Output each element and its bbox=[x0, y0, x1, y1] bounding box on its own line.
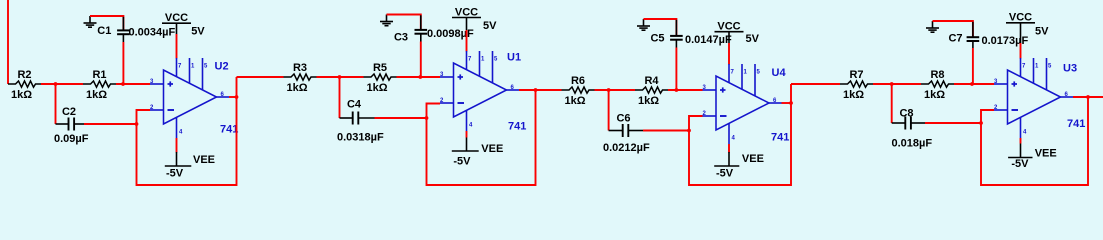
wire bbox=[466, 131, 468, 138]
wire C2 branch bbox=[55, 84, 57, 124]
capacitor C2 bbox=[54, 106, 89, 145]
wire feedback bbox=[689, 84, 791, 185]
junction bbox=[1086, 95, 1090, 99]
svg-text:C5: C5 bbox=[650, 33, 664, 45]
junction node A3 bbox=[607, 88, 611, 92]
svg-text:R6: R6 bbox=[571, 75, 585, 87]
wire bbox=[122, 34, 124, 42]
svg-text:0.0318µF: 0.0318µF bbox=[337, 132, 384, 144]
junction node A1 bbox=[54, 82, 58, 86]
wire bbox=[420, 15, 422, 30]
svg-text:741: 741 bbox=[508, 121, 526, 133]
wire bbox=[728, 144, 730, 153]
svg-text:1kΩ: 1kΩ bbox=[86, 89, 107, 101]
resistor R7 bbox=[840, 69, 873, 101]
svg-text:C8: C8 bbox=[899, 108, 913, 120]
op-amp U3 bbox=[994, 58, 1085, 138]
wire bbox=[340, 117, 353, 119]
ground bbox=[84, 16, 97, 27]
resistor R4 bbox=[635, 75, 668, 107]
svg-text:VCC: VCC bbox=[165, 12, 188, 24]
wire C8 branch bbox=[891, 84, 893, 123]
wire bbox=[387, 15, 421, 30]
wire bbox=[972, 41, 974, 48]
svg-text:C2: C2 bbox=[62, 106, 76, 118]
resistor R5 bbox=[364, 62, 397, 94]
svg-text:-5V: -5V bbox=[716, 168, 734, 180]
svg-text:0.018µF: 0.018µF bbox=[892, 138, 933, 150]
wire bbox=[643, 130, 689, 132]
wire bbox=[420, 42, 422, 78]
wire to stage 2 bbox=[237, 76, 284, 78]
junction bbox=[534, 88, 538, 92]
svg-text:741: 741 bbox=[771, 132, 789, 144]
wire bbox=[873, 83, 921, 85]
svg-text:VCC: VCC bbox=[1009, 12, 1032, 24]
wire C6 branch bbox=[608, 90, 610, 131]
wire bbox=[116, 83, 150, 85]
wire output bbox=[782, 102, 792, 104]
wire feedback bbox=[427, 90, 536, 185]
junction node B3 bbox=[675, 88, 679, 92]
ground bbox=[380, 15, 393, 26]
svg-text:1kΩ: 1kΩ bbox=[924, 89, 945, 101]
op-amp U4 bbox=[703, 64, 790, 144]
svg-text:-5V: -5V bbox=[166, 168, 184, 180]
wire bbox=[466, 30, 468, 52]
svg-text:1kΩ: 1kΩ bbox=[286, 82, 307, 94]
svg-text:1kΩ: 1kΩ bbox=[11, 89, 32, 101]
svg-text:U1: U1 bbox=[507, 52, 521, 64]
junction node A2 bbox=[338, 75, 342, 79]
junction node B4 bbox=[970, 82, 974, 86]
svg-text:0.09µF: 0.09µF bbox=[54, 133, 89, 145]
resistor R6 bbox=[562, 75, 595, 107]
capacitor C8 bbox=[892, 108, 933, 150]
wire bbox=[644, 19, 677, 36]
junction bbox=[425, 116, 429, 120]
svg-text:R8: R8 bbox=[930, 69, 944, 81]
wire bbox=[176, 138, 178, 153]
pin numbers U1 bbox=[440, 57, 515, 129]
wire bbox=[176, 34, 178, 59]
svg-text:R7: R7 bbox=[849, 69, 863, 81]
svg-text:0.0034µF: 0.0034µF bbox=[129, 27, 176, 39]
wire feedback bbox=[981, 97, 1088, 185]
svg-text:741: 741 bbox=[1067, 118, 1085, 130]
power VCC bbox=[1006, 12, 1049, 43]
wire bbox=[317, 76, 364, 78]
wire output bbox=[229, 96, 237, 98]
svg-text:R1: R1 bbox=[92, 69, 106, 81]
capacitor C6 bbox=[603, 113, 650, 155]
op-amp U2 bbox=[150, 58, 238, 138]
capacitor C1 bbox=[97, 25, 175, 39]
wire bbox=[892, 122, 906, 124]
svg-text:5V: 5V bbox=[746, 33, 760, 45]
svg-text:R4: R4 bbox=[644, 75, 659, 87]
svg-text:R2: R2 bbox=[17, 69, 31, 81]
capacitor C5 bbox=[650, 33, 732, 47]
wire bbox=[925, 122, 981, 124]
wire C4 branch bbox=[339, 77, 341, 118]
svg-text:0.0212µF: 0.0212µF bbox=[603, 142, 650, 154]
wire bbox=[675, 40, 677, 48]
wire bbox=[74, 123, 84, 125]
wire bbox=[84, 123, 137, 125]
wire bbox=[911, 122, 925, 124]
wire bbox=[420, 34, 422, 42]
svg-text:-5V: -5V bbox=[453, 156, 471, 168]
wire bbox=[41, 83, 83, 85]
svg-text:1kΩ: 1kΩ bbox=[843, 89, 864, 101]
svg-text:U4: U4 bbox=[772, 67, 787, 79]
resistor R2 bbox=[8, 69, 41, 101]
resistor R3 bbox=[284, 62, 317, 94]
svg-text:U2: U2 bbox=[215, 61, 229, 73]
junction bbox=[979, 121, 983, 125]
wire bbox=[595, 89, 636, 91]
wire bbox=[609, 130, 623, 132]
svg-text:VEE: VEE bbox=[481, 143, 503, 155]
svg-text:C6: C6 bbox=[616, 113, 630, 125]
svg-text:VEE: VEE bbox=[742, 153, 764, 165]
svg-text:VCC: VCC bbox=[455, 6, 478, 18]
power VCC bbox=[452, 6, 497, 32]
wire bbox=[933, 21, 973, 37]
wire to stage 4 bbox=[791, 83, 840, 85]
pin numbers U2 bbox=[150, 64, 225, 136]
wire bbox=[358, 117, 374, 119]
svg-text:C7: C7 bbox=[948, 33, 962, 45]
svg-text:5V: 5V bbox=[1035, 26, 1049, 38]
wire bbox=[972, 22, 974, 37]
junction node A4 bbox=[890, 82, 894, 86]
resistor R1 bbox=[83, 69, 116, 101]
svg-text:0.0147µF: 0.0147µF bbox=[685, 34, 732, 46]
ground bbox=[637, 19, 650, 30]
junction bbox=[135, 122, 139, 126]
power VCC bbox=[715, 21, 760, 46]
svg-text:-5V: -5V bbox=[1011, 158, 1029, 170]
power VCC bbox=[162, 12, 205, 38]
svg-text:C4: C4 bbox=[347, 99, 362, 111]
svg-text:VCC: VCC bbox=[717, 21, 740, 33]
wire bbox=[1020, 138, 1022, 144]
wire bbox=[668, 89, 703, 91]
wire bbox=[90, 16, 123, 30]
wire bbox=[122, 17, 124, 31]
wire input bbox=[7, 0, 9, 84]
svg-text:R5: R5 bbox=[373, 62, 387, 74]
svg-text:R3: R3 bbox=[293, 62, 307, 74]
wire bbox=[675, 20, 677, 36]
wire bbox=[122, 42, 124, 84]
svg-text:U3: U3 bbox=[1063, 63, 1077, 75]
wire bbox=[1020, 43, 1022, 59]
svg-text:5V: 5V bbox=[483, 20, 497, 32]
wire bbox=[728, 43, 730, 65]
ground bbox=[926, 21, 939, 32]
capacitor C7 bbox=[948, 33, 1028, 48]
wire bbox=[954, 83, 994, 85]
wire bbox=[628, 130, 643, 132]
junction bbox=[687, 129, 691, 133]
wire output bbox=[519, 89, 562, 91]
svg-text:VEE: VEE bbox=[193, 154, 215, 166]
svg-text:1kΩ: 1kΩ bbox=[564, 95, 585, 107]
power VEE bbox=[452, 138, 504, 168]
junction node B1 bbox=[121, 82, 125, 86]
junction node B2 bbox=[418, 75, 422, 79]
power VEE bbox=[165, 152, 215, 180]
resistor R8 bbox=[921, 69, 954, 101]
wire bbox=[56, 123, 69, 125]
junction bbox=[235, 95, 239, 99]
pin numbers U4 bbox=[703, 70, 778, 142]
svg-text:C1: C1 bbox=[97, 25, 111, 37]
pin numbers U3 bbox=[994, 64, 1069, 136]
svg-text:1kΩ: 1kΩ bbox=[366, 82, 387, 94]
svg-text:1kΩ: 1kΩ bbox=[638, 95, 659, 107]
wire bbox=[375, 117, 427, 119]
junction bbox=[789, 101, 793, 105]
svg-text:C3: C3 bbox=[394, 32, 408, 44]
svg-text:VEE: VEE bbox=[1035, 148, 1057, 160]
power VEE bbox=[714, 152, 764, 180]
svg-text:5V: 5V bbox=[191, 26, 205, 38]
wire output bbox=[1073, 96, 1103, 98]
power VEE bbox=[1008, 144, 1057, 171]
wire bbox=[397, 76, 441, 78]
op-amp U1 bbox=[440, 51, 526, 133]
wire bbox=[675, 48, 677, 91]
capacitor C4 bbox=[337, 99, 384, 144]
wire bbox=[972, 48, 974, 84]
capacitor C3 bbox=[394, 28, 474, 44]
wire feedback bbox=[137, 77, 237, 185]
